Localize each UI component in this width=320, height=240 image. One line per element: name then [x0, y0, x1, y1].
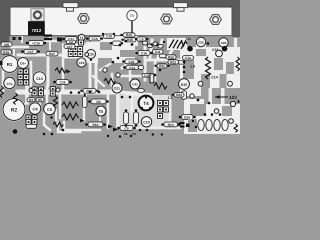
- svg-text:C17: C17: [27, 50, 33, 54]
- capacitor C9: [117, 126, 136, 131]
- inductor L5 hatch: [169, 40, 186, 49]
- svg-text:R2: R2: [11, 108, 18, 114]
- svg-text:L6: L6: [191, 65, 195, 69]
- electrolytic pads under R1: [18, 69, 29, 85]
- capacitor C17b: [64, 40, 84, 49]
- svg-text:D15: D15: [181, 83, 188, 87]
- capacitor C21: [62, 37, 77, 42]
- svg-text:C14: C14: [211, 76, 218, 80]
- terminal Tb wire: [131, 21, 133, 41]
- capacitor C5: [44, 103, 56, 115]
- via rings: [29, 53, 236, 124]
- hex nut 3: [210, 15, 222, 25]
- regulator U1 body 7812: [28, 21, 45, 35]
- label pill: D05: [1, 42, 12, 47]
- resistor vertical right edge: [236, 57, 240, 71]
- svg-text:R17: R17: [49, 52, 55, 56]
- hex nut 2: [161, 14, 173, 24]
- svg-text:Tb: Tb: [130, 13, 135, 18]
- trace right edge: [234, 38, 237, 76]
- white zone right: [180, 44, 240, 96]
- resistor R13: [120, 33, 135, 37]
- tab right: [174, 3, 188, 12]
- resistor R1: [0, 55, 19, 74]
- capacitor C1a: [183, 56, 194, 61]
- capacitor C13: [32, 71, 47, 86]
- svg-text:R10: R10: [92, 123, 98, 127]
- resistor zigzag bottom-right-center: [154, 83, 167, 89]
- svg-text:C17: C17: [67, 45, 73, 49]
- svg-text:R4: R4: [29, 98, 33, 102]
- dimension arrow 103: [204, 88, 240, 104]
- svg-text:C41: C41: [132, 83, 138, 87]
- resistor R20: [160, 54, 177, 59]
- svg-text:C23: C23: [212, 48, 218, 52]
- svg-text:C1a: C1a: [129, 66, 135, 70]
- capacitor C26: [196, 37, 205, 46]
- inductor L6 coil: [206, 57, 211, 79]
- resistor R16: [1, 50, 12, 55]
- pads under C13: [32, 87, 55, 97]
- capacitor C22: [122, 59, 141, 64]
- trace network (white channels): [3, 36, 180, 132]
- svg-text:R5: R5: [38, 98, 42, 102]
- svg-text:D6: D6: [96, 100, 100, 104]
- svg-text:C1b: C1b: [141, 51, 147, 55]
- svg-text:L5: L5: [140, 38, 144, 42]
- diode D16: [179, 115, 196, 120]
- svg-text:7812: 7812: [32, 28, 42, 33]
- svg-text:C19: C19: [79, 61, 85, 65]
- diode D15: [179, 79, 190, 100]
- svg-text:R15: R15: [127, 38, 133, 42]
- diode D2 circle: [112, 83, 122, 93]
- svg-text:103: 103: [229, 95, 237, 100]
- white zone center-top: [86, 36, 135, 63]
- svg-text:C15: C15: [59, 80, 65, 84]
- capacitor C7: [3, 76, 16, 89]
- svg-text:+C16: +C16: [32, 41, 40, 45]
- svg-text:R23: R23: [176, 93, 182, 97]
- arrow marks: [80, 119, 118, 132]
- svg-text:C1a: C1a: [185, 56, 191, 60]
- resistor R23: [172, 93, 184, 98]
- svg-text:C9: C9: [124, 126, 128, 130]
- resistor zigzag R7: [62, 114, 79, 120]
- svg-text:R21: R21: [159, 64, 165, 68]
- capacitor C28: [207, 38, 229, 47]
- hex nut 1: [78, 14, 90, 24]
- svg-text:C14: C14: [144, 74, 150, 78]
- svg-text:L3: L3: [168, 96, 172, 100]
- svg-text:C25: C25: [198, 41, 204, 45]
- resistor zigzag right of C5: [53, 122, 63, 127]
- capacitor C20: [87, 50, 96, 62]
- svg-text:R16: R16: [3, 50, 9, 54]
- svg-text:005: 005: [4, 43, 10, 47]
- resistor R22: [154, 60, 185, 68]
- resistor vertical bottom-left: [54, 96, 58, 108]
- resistor vertical small: [14, 93, 18, 105]
- svg-text:C6+: C6+: [20, 62, 26, 66]
- capacitor C18: [104, 34, 124, 45]
- svg-text:C10: C10: [143, 121, 150, 125]
- svg-text:D21: D21: [114, 87, 120, 91]
- resistor vertical near T4: [150, 74, 154, 83]
- regulator U1 tab: [31, 9, 44, 21]
- capacitor C1b top: [86, 36, 103, 41]
- capacitor C19: [77, 58, 86, 67]
- resistor R10: [85, 122, 106, 127]
- white zone bottom-center: [116, 95, 170, 128]
- svg-text:C1b: C1b: [92, 37, 98, 41]
- tab left: [63, 3, 78, 12]
- resistor R2: [2, 98, 26, 122]
- svg-text:C2: C2: [69, 40, 73, 44]
- capacitor C1A small: [142, 74, 152, 78]
- transistor T1: [78, 34, 85, 41]
- gray islands in right zone: [183, 49, 236, 116]
- svg-text:D16: D16: [184, 115, 190, 119]
- capacitor C2: [67, 40, 76, 44]
- svg-text:C13: C13: [36, 77, 43, 81]
- capacitor C15: [53, 80, 72, 85]
- diode D6: [88, 99, 109, 104]
- white zone bottom-right: [184, 99, 240, 134]
- capacitor C10: [141, 117, 151, 127]
- svg-text:R13: R13: [126, 33, 132, 37]
- diode bridge squares: [68, 47, 82, 57]
- PCB base: [0, 0, 240, 140]
- resistor squiggle bottom-right corner: [234, 124, 238, 132]
- svg-text:T4: T4: [143, 101, 149, 106]
- diode D1b: [80, 89, 98, 94]
- resistor zigzag right of R1: [55, 68, 67, 73]
- transistor T5: [96, 106, 106, 116]
- bottom-right capacitor row C24 C25 C26 C27: [188, 113, 228, 132]
- chassis white band: [10, 7, 233, 37]
- svg-text:C22: C22: [128, 60, 134, 64]
- svg-text:T5: T5: [99, 110, 103, 114]
- svg-text:R20: R20: [168, 55, 174, 59]
- resistor R17: [46, 51, 58, 56]
- capacitor C14 label: [211, 76, 218, 80]
- capacitor C17: [21, 49, 40, 54]
- capacitor C1a: [123, 65, 144, 70]
- resistor zigzag left of Lb: [180, 41, 187, 46]
- capacitor C1b: [135, 51, 153, 56]
- resistor zigzag center: [104, 78, 115, 83]
- dark frame: right column: [233, 0, 241, 37]
- svg-text:C26: C26: [221, 41, 227, 45]
- resistor R5: [36, 98, 44, 102]
- pad nub left edge: [0, 61, 3, 65]
- capacitor C11: [153, 50, 164, 55]
- svg-text:C9: C9: [132, 132, 136, 136]
- terminal Tb: [127, 10, 137, 20]
- pad ellipse below C41: [138, 89, 145, 93]
- dark frame: left column: [0, 0, 10, 44]
- capacitor C16: [26, 41, 47, 46]
- svg-text:C11: C11: [155, 50, 161, 54]
- pad bars bottom-left-of-right-zone: [180, 122, 190, 128]
- svg-text:C5: C5: [47, 107, 53, 112]
- resistor R8 vertical: [83, 94, 88, 108]
- inductor L5 label pill: [135, 37, 148, 42]
- transistor T4: [139, 96, 154, 111]
- resistor R15: [121, 38, 136, 42]
- svg-text:C7a: C7a: [7, 82, 13, 86]
- capacitor C23: [212, 48, 222, 57]
- svg-text:C8: C8: [124, 132, 128, 136]
- capacitor C41: [130, 79, 140, 89]
- cap squares pair A: [26, 115, 53, 128]
- solder pads pair A: [142, 41, 163, 48]
- svg-text:R1: R1: [7, 62, 13, 67]
- svg-text:C4: C4: [32, 107, 38, 112]
- svg-text:Lb: Lb: [186, 37, 191, 41]
- svg-text:R14: R14: [168, 123, 174, 127]
- resistor R4: [27, 98, 35, 102]
- squares right-center stack: [158, 101, 169, 119]
- svg-text:R22: R22: [170, 60, 176, 64]
- scattered pads: [13, 33, 228, 138]
- capacitor C4: [28, 102, 41, 115]
- gray islands in center zone: [86, 36, 135, 63]
- resistor zigzag R6: [62, 102, 79, 108]
- resistor R14: [161, 122, 180, 127]
- dark frame: top bar: [0, 0, 240, 7]
- vertical pill pair: [124, 109, 139, 127]
- svg-text:C18: C18: [106, 35, 112, 39]
- resistor vertical left edge: [0, 86, 4, 98]
- capacitor C6: [17, 57, 30, 70]
